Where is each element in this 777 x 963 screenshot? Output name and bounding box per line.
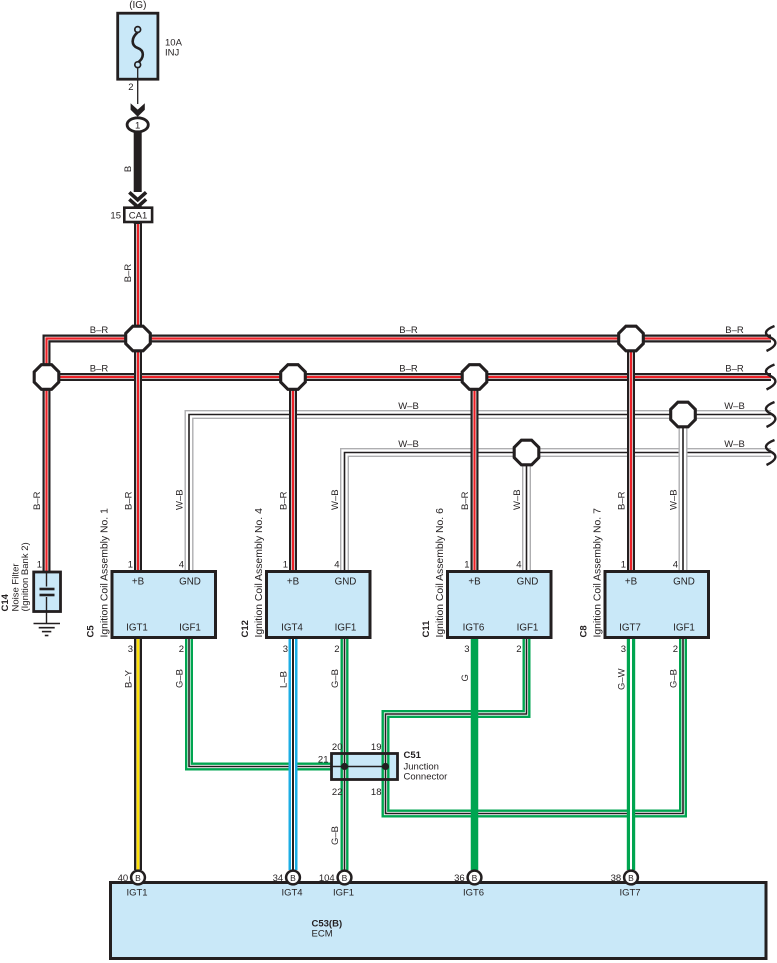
svg-text:C8: C8 xyxy=(579,625,590,637)
svg-text:20: 20 xyxy=(332,742,343,753)
svg-text:2: 2 xyxy=(673,644,678,655)
svg-text:C11: C11 xyxy=(421,620,432,638)
svg-text:+B: +B xyxy=(132,577,145,588)
svg-text:B–R: B–R xyxy=(90,325,109,336)
svg-text:+B: +B xyxy=(287,577,300,588)
svg-text:C14: C14 xyxy=(0,593,11,611)
svg-text:104: 104 xyxy=(319,873,335,884)
svg-text:15: 15 xyxy=(110,211,121,222)
svg-text:22: 22 xyxy=(332,787,343,798)
svg-text:38: 38 xyxy=(611,873,622,884)
svg-text:G–B: G–B xyxy=(175,669,186,688)
svg-text:W–B: W–B xyxy=(669,489,680,510)
svg-text:C5: C5 xyxy=(86,625,97,638)
svg-text:3: 3 xyxy=(283,644,288,655)
svg-text:1: 1 xyxy=(283,560,288,571)
svg-text:B–R: B–R xyxy=(617,491,628,510)
svg-text:B–R: B–R xyxy=(279,491,290,510)
svg-text:IGF1: IGF1 xyxy=(673,622,695,633)
svg-text:B: B xyxy=(472,873,478,883)
svg-text:1: 1 xyxy=(128,560,133,571)
svg-text:40: 40 xyxy=(118,873,129,884)
svg-text:G–B: G–B xyxy=(669,669,680,688)
svg-text:IGT7: IGT7 xyxy=(619,888,640,899)
svg-text:IGF1: IGF1 xyxy=(333,888,354,899)
svg-text:L–B: L–B xyxy=(279,671,290,688)
svg-text:IGT4: IGT4 xyxy=(281,622,303,633)
svg-text:G–B: G–B xyxy=(330,669,341,688)
svg-text:GND: GND xyxy=(673,577,695,588)
svg-text:1: 1 xyxy=(621,560,626,571)
svg-text:B–R: B–R xyxy=(725,364,744,375)
svg-text:B: B xyxy=(135,873,141,883)
svg-text:W–B: W–B xyxy=(512,489,523,510)
svg-text:GND: GND xyxy=(335,577,357,588)
svg-text:W–B: W–B xyxy=(330,489,341,510)
svg-text:ECM: ECM xyxy=(312,929,333,940)
svg-text:IGT4: IGT4 xyxy=(281,888,302,899)
svg-text:+B: +B xyxy=(468,577,481,588)
svg-text:18: 18 xyxy=(371,787,382,798)
svg-text:GND: GND xyxy=(179,577,201,588)
svg-text:W–B: W–B xyxy=(398,439,419,450)
svg-text:B–R: B–R xyxy=(399,364,418,375)
svg-text:G–W: G–W xyxy=(617,668,628,690)
svg-text:36: 36 xyxy=(454,873,465,884)
svg-text:Ignition Coil Assembly No. 1: Ignition Coil Assembly No. 1 xyxy=(99,508,110,638)
svg-text:3: 3 xyxy=(464,644,469,655)
svg-text:1: 1 xyxy=(135,121,140,132)
svg-text:B: B xyxy=(342,873,348,883)
svg-text:IGT6: IGT6 xyxy=(463,622,485,633)
svg-text:IGF1: IGF1 xyxy=(517,622,539,633)
svg-text:GND: GND xyxy=(517,577,539,588)
svg-text:G: G xyxy=(460,674,471,681)
svg-text:B: B xyxy=(123,166,134,172)
svg-text:W–B: W–B xyxy=(724,401,745,412)
svg-text:2: 2 xyxy=(334,644,339,655)
svg-text:B–R: B–R xyxy=(90,364,109,375)
svg-text:19: 19 xyxy=(371,742,382,753)
svg-text:34: 34 xyxy=(273,873,284,884)
svg-text:C51: C51 xyxy=(404,750,422,761)
svg-text:(IG): (IG) xyxy=(129,0,146,11)
svg-text:IGT1: IGT1 xyxy=(126,622,148,633)
svg-text:3: 3 xyxy=(621,644,626,655)
svg-text:1: 1 xyxy=(37,560,42,571)
svg-text:IGF1: IGF1 xyxy=(179,622,201,633)
svg-text:C12: C12 xyxy=(240,620,251,637)
svg-text:Ignition Coil Assembly No. 6: Ignition Coil Assembly No. 6 xyxy=(435,508,446,638)
svg-text:21: 21 xyxy=(318,755,329,766)
svg-text:4: 4 xyxy=(179,560,184,571)
svg-text:4: 4 xyxy=(673,560,678,571)
svg-text:2: 2 xyxy=(128,82,133,93)
svg-text:B–R: B–R xyxy=(123,264,134,283)
svg-text:B–R: B–R xyxy=(32,491,43,510)
svg-text:Ignition Coil Assembly No. 4: Ignition Coil Assembly No. 4 xyxy=(254,508,265,638)
svg-text:W–B: W–B xyxy=(398,401,419,412)
svg-text:Connector: Connector xyxy=(404,772,448,783)
svg-text:(Ignition Bank 2): (Ignition Bank 2) xyxy=(20,542,31,611)
svg-text:3: 3 xyxy=(128,644,133,655)
svg-text:B–R: B–R xyxy=(124,491,135,510)
svg-text:B–R: B–R xyxy=(399,325,418,336)
svg-text:4: 4 xyxy=(516,560,521,571)
svg-text:IGF1: IGF1 xyxy=(335,622,357,633)
svg-text:CA1: CA1 xyxy=(129,211,147,222)
svg-text:IGT6: IGT6 xyxy=(463,888,484,899)
svg-text:INJ: INJ xyxy=(165,48,180,59)
svg-text:IGT7: IGT7 xyxy=(619,622,641,633)
svg-text:W–B: W–B xyxy=(724,439,745,450)
svg-text:B: B xyxy=(290,873,296,883)
svg-text:+B: +B xyxy=(625,577,638,588)
svg-text:B–R: B–R xyxy=(725,325,744,336)
svg-text:1: 1 xyxy=(464,560,469,571)
svg-text:IGT1: IGT1 xyxy=(126,888,147,899)
svg-text:Ignition Coil Assembly No. 7: Ignition Coil Assembly No. 7 xyxy=(592,508,603,638)
svg-text:B–R: B–R xyxy=(460,491,471,510)
svg-text:2: 2 xyxy=(179,644,184,655)
svg-text:4: 4 xyxy=(334,560,339,571)
svg-text:G–B: G–B xyxy=(330,826,341,845)
svg-text:W–B: W–B xyxy=(175,489,186,510)
svg-text:B–Y: B–Y xyxy=(124,669,135,688)
svg-text:B: B xyxy=(628,873,634,883)
svg-text:2: 2 xyxy=(516,644,521,655)
